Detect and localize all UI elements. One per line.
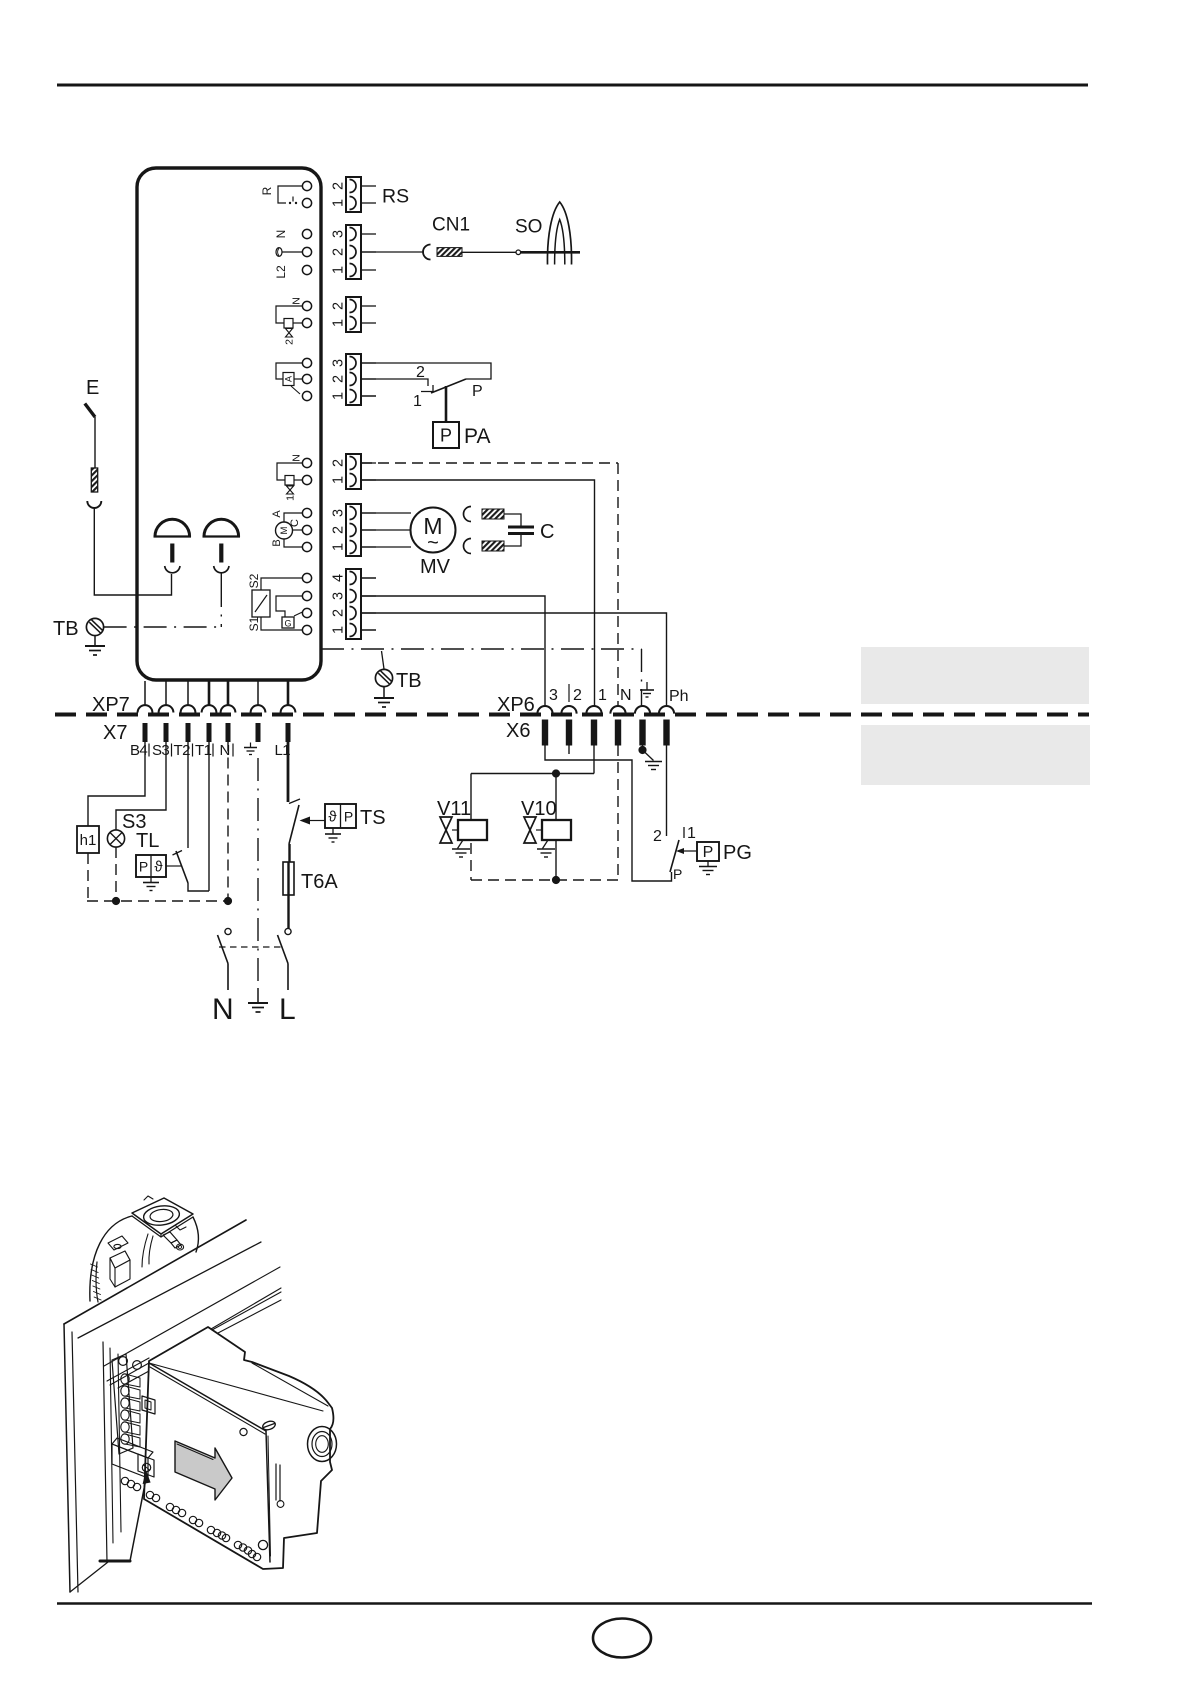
dashed neutral X6-N down xyxy=(617,745,619,880)
wire X6-3 to PG common xyxy=(545,745,672,881)
earth dash-dot line xyxy=(257,758,259,988)
svg-text:C: C xyxy=(540,521,554,543)
valve coil V11 xyxy=(458,820,487,840)
motor MV xyxy=(411,508,456,553)
valve symbol V11 xyxy=(440,817,452,843)
ground symbol under TB xyxy=(374,687,394,707)
svg-text:3: 3 xyxy=(331,509,347,517)
svg-text:X7: X7 xyxy=(103,722,127,744)
wire plug7 pin3 to XP6 3 xyxy=(361,596,545,706)
pressure switch PA box xyxy=(433,422,459,448)
contact 1 tick xyxy=(683,827,685,838)
valve coil V10 xyxy=(542,820,571,840)
wire CN1 to SO xyxy=(462,251,516,253)
wire through flame xyxy=(521,251,580,254)
svg-text:1: 1 xyxy=(331,392,347,400)
winding resistors xyxy=(482,509,504,519)
svg-text:2: 2 xyxy=(331,609,347,617)
ground under V10 xyxy=(537,840,555,857)
L switch contact xyxy=(285,928,291,934)
svg-text:P: P xyxy=(673,866,682,882)
dashed wire N xyxy=(227,741,229,902)
svg-text:P: P xyxy=(344,809,353,825)
svg-text:A: A xyxy=(284,376,294,382)
connector X7 xyxy=(143,723,148,742)
wire T2 xyxy=(187,741,189,849)
svg-text:XP7: XP7 xyxy=(92,694,130,716)
svg-text:RS: RS xyxy=(382,186,409,208)
dashed wire under S3 xyxy=(115,847,117,901)
ground symbol under X7 earth pin xyxy=(244,743,257,755)
connector XP6 xyxy=(537,706,552,714)
svg-text:TB: TB xyxy=(53,618,79,640)
wire plug5 pin1 to XP6 1 xyxy=(361,480,595,706)
svg-text:Ph: Ph xyxy=(669,688,689,705)
TL actuator xyxy=(166,865,181,867)
board icon gas valve 2 xyxy=(276,297,303,345)
wire to T1 xyxy=(188,883,209,891)
wire X6-1 to valves xyxy=(593,745,595,774)
svg-text:2: 2 xyxy=(331,248,347,256)
board pin holes xyxy=(302,181,311,190)
earth terminal TB (left) xyxy=(86,618,103,635)
svg-text:2: 2 xyxy=(331,526,347,534)
wire plug4 pin3 xyxy=(361,363,491,379)
actuator link xyxy=(678,850,697,852)
svg-text:ϑ: ϑ xyxy=(328,809,337,826)
control board outline xyxy=(137,168,321,680)
svg-text:T6A: T6A xyxy=(301,871,338,893)
dashed wire under h1 xyxy=(87,853,89,901)
electrode E gap xyxy=(85,404,102,509)
svg-text:PA: PA xyxy=(464,425,490,448)
svg-text:1: 1 xyxy=(331,199,347,207)
wire S3 xyxy=(116,741,166,831)
svg-text:MV: MV xyxy=(420,556,451,578)
connector MV plug (3 pin) xyxy=(331,504,376,556)
svg-text:N: N xyxy=(220,742,231,759)
svg-text:2: 2 xyxy=(573,687,582,704)
svg-text:P: P xyxy=(703,844,714,861)
connector RS plug xyxy=(331,177,376,212)
board icon relay S1 S2 and G sensor xyxy=(247,573,302,631)
electrode dome 2 xyxy=(203,519,241,573)
dashed separator line between XP and X connectors xyxy=(55,713,1089,717)
board icon fan motor M with terminals A C B xyxy=(271,510,303,547)
wire plug4 pin1 stub xyxy=(361,395,376,397)
svg-text:N: N xyxy=(620,687,632,704)
svg-text:~: ~ xyxy=(427,532,439,554)
junction xyxy=(552,769,560,777)
wires board to motor MV xyxy=(361,512,411,514)
svg-text:L2: L2 xyxy=(274,265,288,279)
connector XP7 xyxy=(144,681,146,706)
svg-text:CN1: CN1 xyxy=(432,215,470,236)
ground under TL xyxy=(143,877,159,891)
connector CN1 xyxy=(423,245,431,260)
svg-text:N: N xyxy=(291,454,303,462)
svg-text:TL: TL xyxy=(136,830,159,852)
svg-text:3: 3 xyxy=(549,687,558,704)
TS contact tick xyxy=(289,799,300,804)
svg-text:1: 1 xyxy=(285,495,297,501)
junction xyxy=(112,897,120,905)
svg-text:S1: S1 xyxy=(247,616,261,631)
dashed bus xyxy=(87,900,228,902)
illustration: gas valve and fan assembly xyxy=(64,1196,337,1592)
connector plug 5 (2 pin) xyxy=(331,454,376,489)
wire plug7 pin1 stub xyxy=(361,629,376,631)
svg-text:1: 1 xyxy=(331,476,347,484)
wire X6-Ph to PG contact xyxy=(666,745,668,836)
node joint xyxy=(516,250,521,255)
svg-text:L: L xyxy=(279,993,296,1026)
svg-text:PG: PG xyxy=(723,842,752,864)
svg-text:2: 2 xyxy=(284,339,296,345)
wire blade to PA xyxy=(445,386,448,422)
thermostat TS box xyxy=(325,804,356,828)
wire E to burner electrode xyxy=(94,508,171,595)
fuse T6A xyxy=(283,862,294,895)
lamp S3 xyxy=(107,830,124,847)
ground symbol (mains earth) xyxy=(248,988,268,1012)
wire X6-2 stub xyxy=(568,745,570,754)
TS actuator arrow xyxy=(309,820,325,822)
ignition electrode SO (flame symbol) xyxy=(547,202,571,265)
svg-text:P: P xyxy=(440,426,452,446)
svg-text:N: N xyxy=(212,993,234,1026)
N switch blade xyxy=(218,935,229,964)
dashed wire plug5 pin2 to XP6 N xyxy=(361,462,618,464)
ground symbol at XP6 xyxy=(640,682,654,697)
board icon flame sensor, labels N / L2 xyxy=(274,230,302,279)
connector CN1 plug (3 pin) xyxy=(331,225,376,279)
svg-text:TB: TB xyxy=(396,670,422,692)
svg-text:ϑ: ϑ xyxy=(154,859,163,876)
svg-text:P: P xyxy=(472,383,483,400)
svg-text:S3: S3 xyxy=(152,742,169,759)
svg-text:TS: TS xyxy=(360,807,386,829)
wire B4 to h1 xyxy=(88,741,145,827)
wire plug7 pin4 stub xyxy=(361,577,376,579)
wire T1 xyxy=(208,741,210,892)
svg-text:XP6: XP6 xyxy=(497,694,535,716)
svg-text:2: 2 xyxy=(331,459,347,467)
valve symbol V10 xyxy=(524,817,536,843)
junction xyxy=(552,876,560,884)
svg-text:1: 1 xyxy=(331,319,347,327)
connector plug 3 (2 pin) xyxy=(331,297,376,332)
wire under dome2 xyxy=(220,574,222,585)
dashed return path xyxy=(471,879,618,881)
svg-text:G: G xyxy=(284,619,291,629)
wire through fuse xyxy=(288,844,290,862)
svg-text:2: 2 xyxy=(331,375,347,383)
svg-text:2: 2 xyxy=(331,302,347,310)
svg-text:1: 1 xyxy=(687,825,696,842)
earth terminal TB (right) xyxy=(375,651,392,687)
connector X6 xyxy=(542,720,548,746)
svg-text:1: 1 xyxy=(413,393,422,410)
svg-text:S2: S2 xyxy=(247,573,261,588)
svg-text:4: 4 xyxy=(331,574,347,582)
svg-text:N: N xyxy=(291,297,303,305)
pressure switch PG box xyxy=(697,842,719,861)
svg-text:P: P xyxy=(139,859,148,875)
svg-text:M: M xyxy=(279,526,290,534)
svg-text:3: 3 xyxy=(331,230,347,238)
contact tick xyxy=(173,851,183,856)
svg-text:2: 2 xyxy=(331,182,347,190)
svg-text:2: 2 xyxy=(416,364,425,381)
svg-text:3: 3 xyxy=(331,359,347,367)
svg-text:1: 1 xyxy=(331,266,347,274)
svg-text:N: N xyxy=(274,230,288,239)
wires to capacitor C xyxy=(504,514,521,527)
svg-text:1: 1 xyxy=(598,687,607,704)
connector plug 7 (4 pin) xyxy=(331,569,376,639)
svg-text:R: R xyxy=(260,186,274,195)
junction xyxy=(224,897,232,905)
dash-dot to TB xyxy=(220,584,222,627)
svg-text:1: 1 xyxy=(331,626,347,634)
wire plug4 pin2 (contact 2) xyxy=(361,379,428,386)
svg-text:A: A xyxy=(271,510,283,518)
ground under TB xyxy=(85,636,105,655)
svg-text:X6: X6 xyxy=(506,720,530,742)
earth dash-dot line from board xyxy=(321,648,642,650)
thermostat TL box xyxy=(136,855,166,877)
ground under PG xyxy=(699,861,717,875)
contact 1 tick xyxy=(421,385,433,392)
indicator h1 xyxy=(77,826,99,853)
ground under TS xyxy=(325,828,341,842)
svg-text:1: 1 xyxy=(331,543,347,551)
svg-text:2: 2 xyxy=(653,828,662,845)
TS switch blade xyxy=(289,805,299,844)
svg-text:3: 3 xyxy=(331,592,347,600)
svg-text:SO: SO xyxy=(515,217,542,238)
svg-text:h1: h1 xyxy=(80,832,97,849)
wire plug7 pin2 to XP6 Ph xyxy=(361,613,667,706)
N switch contact xyxy=(225,928,231,934)
switch coupling xyxy=(219,946,281,948)
board icon gas valve 1 xyxy=(277,454,303,501)
board icon air pressure switch A xyxy=(276,363,302,394)
board icon R (reset) xyxy=(260,186,302,204)
ground under V11 xyxy=(452,840,470,857)
svg-text:B: B xyxy=(271,539,283,546)
wire L1 (thick) xyxy=(287,741,290,803)
X6 earth pin with ground xyxy=(638,745,662,770)
L switch blade xyxy=(278,935,289,964)
TL switch blade xyxy=(176,851,188,883)
wire board to CN1 xyxy=(361,251,424,253)
electrode dome 1 xyxy=(154,519,192,573)
connector PA plug (3 pin) xyxy=(331,354,376,405)
svg-text:E: E xyxy=(86,377,99,399)
switch blade P xyxy=(431,379,466,393)
winding connector arcs xyxy=(464,507,471,522)
capacitor C xyxy=(508,526,534,529)
PG switch blade xyxy=(670,840,679,872)
